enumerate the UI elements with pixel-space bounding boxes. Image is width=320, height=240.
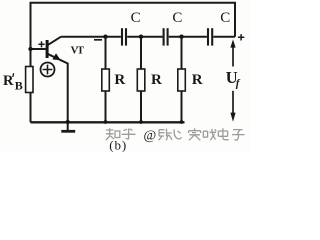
svg-text:@: @ xyxy=(144,128,157,143)
svg-text:C: C xyxy=(131,10,141,26)
svg-text:B: B xyxy=(15,79,23,93)
svg-text:(b): (b) xyxy=(109,137,126,152)
svg-text:C: C xyxy=(172,10,182,26)
svg-text:R: R xyxy=(151,72,162,88)
svg-text:R: R xyxy=(192,72,203,88)
svg-text:R: R xyxy=(3,73,14,89)
svg-text:R: R xyxy=(114,72,125,88)
svg-text:C: C xyxy=(220,10,230,26)
svg-text:VT: VT xyxy=(71,45,84,56)
